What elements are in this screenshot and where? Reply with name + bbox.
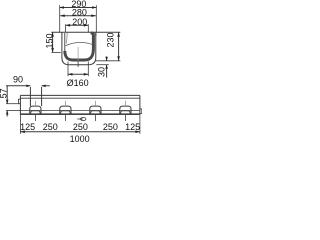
svg-text:280: 280 [72,7,87,17]
svg-text:125: 125 [20,122,35,132]
side elevation [19,95,142,114]
division extension lines [20,101,139,134]
svg-text:Ø160: Ø160 [67,78,89,88]
svg-text:1000: 1000 [70,134,90,144]
centerline in bowl [77,47,79,61]
svg-text:250: 250 [103,122,118,132]
left lip [19,99,21,104]
channel cross-section [51,32,120,65]
outer body left wall [62,32,96,65]
dim Ø160 [68,62,88,77]
svg-text:125: 125 [125,122,140,132]
dim 230 (right, rotated) [96,32,120,61]
bottom thick line [20,113,139,115]
left end [19,95,21,114]
svg-text:230: 230 [105,32,115,47]
right end [139,95,141,114]
svg-text:90: 90 [13,74,23,84]
right end tab [140,109,142,114]
right rail tick [95,33,97,37]
svg-text:250: 250 [73,122,88,132]
svg-text:30: 30 [96,67,106,77]
thick inner channel U [65,33,94,60]
dim 150 (left, rotated) [51,32,61,52]
left inner wall thin [64,33,66,52]
top line (grate level) [51,31,120,33]
left inner lip [66,32,69,43]
bumps (sockets) [30,106,131,114]
dim 280 [60,14,96,17]
dim 30 (right lower, rotated, outside arrows) [96,57,109,78]
inner horizontal line [20,110,139,112]
dim 200 [66,24,89,32]
inner dome arc (far-end invert edge) [66,42,94,45]
svg-text:250: 250 [43,122,58,132]
top edges [20,94,139,96]
dim 290 [59,5,96,32]
dim 1000 [20,130,139,133]
dim 90 (outside arrows) [6,85,50,107]
dim 57 (left, rotated, outside arrows) [6,86,21,117]
svg-text:57: 57 [0,88,8,98]
svg-text:150: 150 [45,33,55,48]
svg-text:200: 200 [72,17,87,27]
tiny symbol under bar [77,117,86,120]
